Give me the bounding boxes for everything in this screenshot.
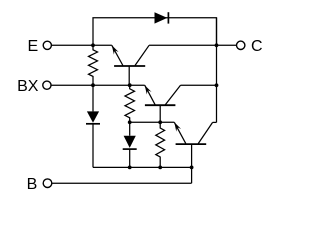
- svg-text:BX: BX: [17, 78, 39, 95]
- svg-text:C: C: [251, 38, 263, 55]
- node BX junction: [91, 83, 95, 87]
- node C junction: [215, 43, 219, 47]
- wire C lead: [217, 44, 237, 46]
- node D3 bottom junction: [128, 166, 132, 170]
- wire B rail: [52, 182, 192, 184]
- resistor R3: [156, 122, 165, 167]
- wire interbase line: [130, 121, 175, 123]
- node Q1 base junction: [128, 83, 132, 87]
- node R3 bottom junction: [158, 166, 162, 170]
- terminal BX: [43, 81, 51, 89]
- node Q2 base junction: [158, 120, 162, 124]
- resistor R2: [125, 85, 135, 122]
- node R2-D3 junction: [128, 120, 132, 124]
- svg-text:E: E: [27, 38, 38, 55]
- wire Q1 collector to C rail: [149, 44, 216, 46]
- wire bottom rail: [93, 166, 192, 168]
- wire top rail: [93, 18, 217, 46]
- transistor Q2: [145, 85, 181, 122]
- node Q2 collector junction: [215, 83, 219, 87]
- wire BX rail: [51, 84, 145, 86]
- wire Q3 collector jog: [213, 121, 217, 123]
- wire right rail: [216, 18, 218, 123]
- resistor R1: [89, 45, 98, 85]
- diode D1 (freewheel, anode left cathode right): [155, 12, 169, 23]
- diode D2: [86, 85, 100, 167]
- terminal B: [43, 179, 52, 188]
- node E junction: [91, 43, 95, 47]
- wire Q2 collector to right rail: [181, 84, 217, 86]
- svg-text:B: B: [27, 176, 38, 193]
- terminal E: [43, 41, 51, 49]
- node Q3 base bottom junction: [190, 166, 194, 170]
- terminal C: [237, 41, 245, 49]
- wire E rail: [52, 44, 112, 46]
- transistor Q1: [112, 45, 149, 85]
- transistor Q3: [174, 122, 212, 183]
- diode D3: [123, 122, 137, 167]
